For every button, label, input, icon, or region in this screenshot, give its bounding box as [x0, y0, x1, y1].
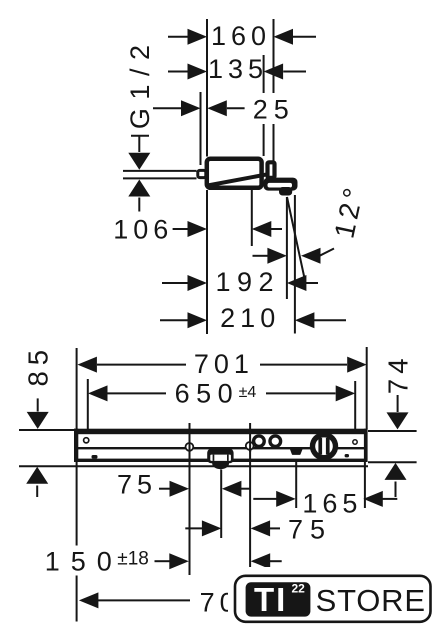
extension line 701 right	[366, 347, 368, 429]
mixer spout arm slot	[268, 183, 293, 188]
temperature dial inner	[315, 437, 333, 455]
svg-text:74: 74	[383, 354, 414, 395]
extension line bar left end upper	[76, 348, 78, 429]
spout window	[210, 455, 231, 461]
ref line left bottom and wall plate	[19, 465, 368, 467]
arrowhead 106 right	[252, 221, 271, 237]
arrowhead 160 right	[274, 29, 294, 45]
dim 650 right segment	[266, 392, 336, 394]
arrowhead 75A right	[222, 481, 242, 497]
extension line x294 outer	[294, 195, 296, 334]
extension line bar left end lower	[76, 462, 78, 546]
dim 106 right tail	[270, 228, 282, 230]
screw hole right	[353, 440, 357, 444]
arrowhead 701 left	[77, 357, 97, 373]
G12 pipe line bottom	[123, 177, 197, 179]
supply keyhole right	[246, 442, 254, 450]
svg-text:±4: ±4	[239, 384, 257, 401]
dim 75B left tail	[185, 527, 202, 529]
supply line right through keyhole	[249, 440, 251, 452]
bar left cap	[74, 429, 78, 462]
extension line x364	[364, 462, 366, 508]
G12 pipe line top	[123, 170, 197, 172]
dim 210 right tail	[314, 319, 347, 321]
spout bottom bump	[212, 462, 229, 469]
extension line spout outlet vertical	[286, 197, 288, 299]
arrowhead 192 right	[287, 275, 307, 291]
dim 192 right tail	[306, 282, 319, 284]
dim 85 lower leader	[36, 486, 38, 498]
mixer top connector	[268, 162, 275, 178]
arrowhead 135 right	[264, 64, 284, 80]
svg-text:85: 85	[22, 344, 53, 387]
svg-text:150: 150	[45, 547, 123, 577]
spout window tick right	[227, 455, 229, 461]
logo black box	[246, 582, 311, 616]
dim 74 lower leader	[395, 482, 397, 498]
dim 135 right tail	[283, 71, 306, 73]
arrowhead 210 right	[295, 312, 315, 328]
dim 192 left tail	[162, 282, 189, 284]
extension line x251 spout ref	[251, 190, 253, 246]
svg-text:75: 75	[117, 470, 157, 500]
supply keyhole left	[186, 443, 194, 451]
arrowhead 75B left	[202, 520, 222, 536]
shower button ring 2	[270, 436, 281, 447]
mixer wall nub	[198, 170, 206, 177]
arrowhead 25 left	[181, 100, 201, 116]
svg-text:701: 701	[194, 349, 254, 379]
svg-text:±18: ±18	[117, 549, 149, 570]
ref line left top	[19, 429, 76, 431]
svg-text:160: 160	[211, 21, 271, 51]
svg-text:22: 22	[292, 582, 306, 596]
extension line wall centerline upper	[206, 19, 208, 157]
bar right cap	[364, 429, 368, 462]
arrowhead 650 left	[88, 385, 108, 401]
bar top band	[74, 429, 368, 435]
arrowhead 74 up	[385, 463, 407, 480]
extension line 650 left	[87, 379, 89, 429]
dim 160 right tail	[293, 36, 316, 38]
screw hole left	[84, 438, 89, 443]
logo white margin	[228, 567, 436, 630]
extension line x263 lower	[263, 124, 265, 156]
eco button trapezoid	[291, 449, 303, 455]
extension line x273 upper	[273, 19, 275, 93]
arrowhead 160 left	[188, 29, 208, 45]
svg-text:135: 135	[208, 54, 268, 84]
arrowhead 85 down	[27, 412, 49, 429]
spout window tick left	[213, 455, 215, 461]
svg-text:75: 75	[288, 515, 332, 545]
arrowhead 25 right	[207, 100, 227, 116]
black dot left	[92, 455, 98, 459]
G12 upper leader	[138, 136, 140, 152]
svg-text:25: 25	[253, 95, 295, 125]
dim 25 left tail	[153, 107, 182, 109]
dim 25 right tail	[227, 107, 245, 109]
extension line spout center	[220, 470, 222, 539]
arrowhead 192 left	[188, 275, 208, 291]
dim 701 right segment	[260, 364, 347, 366]
dim 150 right tail	[270, 560, 282, 562]
extension line x273 lower	[273, 124, 275, 163]
extension line wall centerline lower	[206, 190, 208, 334]
extension line x296	[295, 462, 297, 508]
arrowhead 165 right	[363, 491, 383, 507]
dim 75B right tail	[270, 527, 280, 529]
svg-text:650: 650	[175, 379, 240, 409]
dim 74 upper leader	[397, 395, 399, 412]
arrowhead G12 up	[128, 180, 150, 197]
svg-text:TI: TI	[254, 581, 287, 618]
svg-text:G1/2: G1/2	[125, 37, 155, 130]
angled 12 degree line	[287, 197, 305, 282]
arrowhead 106 left	[188, 221, 208, 237]
svg-text:STORE: STORE	[316, 583, 426, 618]
blob right of dial	[345, 454, 349, 457]
dim 106 left tail	[173, 228, 189, 230]
ref line right top	[368, 430, 417, 432]
spout body front	[207, 449, 233, 464]
arrowhead 150 left-point	[251, 553, 271, 569]
svg-text:192: 192	[216, 267, 281, 297]
dim 85 upper leader	[37, 398, 39, 411]
logo outer frame	[235, 576, 431, 622]
dial grip bar left	[318, 438, 322, 454]
arrowhead 70x left	[79, 592, 99, 608]
dim 12deg right tail	[320, 249, 335, 256]
dim 150 left tail	[155, 560, 171, 562]
extension line x263 upper	[263, 55, 265, 93]
svg-text:106: 106	[113, 215, 173, 245]
dim 160 left tail	[168, 36, 189, 38]
mixer body side view	[207, 159, 262, 188]
dim 701 left segment	[97, 364, 186, 366]
extension line x200	[200, 92, 202, 165]
extension line supply left	[189, 423, 191, 575]
dim 135 left tail	[168, 71, 189, 73]
arrowhead 165 left	[276, 491, 296, 507]
arrowhead 75A left	[170, 481, 190, 497]
mixer spout wedge diagonal	[208, 174, 269, 185]
arrowhead 75B right	[251, 520, 271, 536]
dim 75A right tail	[241, 488, 250, 490]
mixer spout arm	[264, 178, 298, 191]
ref line right bottom	[368, 461, 417, 463]
svg-text:210: 210	[220, 303, 280, 333]
arrowhead 12deg right	[301, 248, 321, 264]
bar bottom band	[78, 459, 364, 462]
dim 210 left tail	[160, 319, 189, 321]
dim 70x tail	[98, 599, 190, 601]
extension line supply right	[249, 423, 251, 572]
bar divider line	[78, 447, 364, 449]
G12 tick	[131, 135, 149, 137]
dim 165 left tail	[253, 498, 276, 500]
arrowhead 701 right	[347, 357, 367, 373]
arrowhead G12 down	[128, 153, 150, 170]
arrowhead 150 right-point	[169, 553, 189, 569]
arrowhead 210 left	[188, 312, 208, 328]
dial grip bar right	[326, 438, 330, 454]
arrowhead 12deg left	[267, 248, 287, 264]
extension line 650 right	[354, 381, 356, 429]
svg-text:12°: 12°	[328, 181, 370, 241]
shower button ring 1	[254, 436, 265, 447]
dim 165 right tail	[382, 498, 397, 500]
arrowhead 650 right	[336, 385, 356, 401]
arrowhead 74 down	[387, 412, 409, 429]
dim 75A left tail	[159, 488, 171, 490]
mixer spout outlet nub	[279, 187, 292, 196]
supply line left through keyhole	[189, 441, 191, 453]
arrowhead 135 left	[188, 64, 208, 80]
dim 12deg left tail	[253, 255, 269, 257]
arrowhead 85 up	[26, 467, 48, 484]
dim 650 left segment	[108, 392, 167, 394]
temperature dial outer	[310, 432, 338, 460]
G12 lower leader	[138, 198, 140, 212]
